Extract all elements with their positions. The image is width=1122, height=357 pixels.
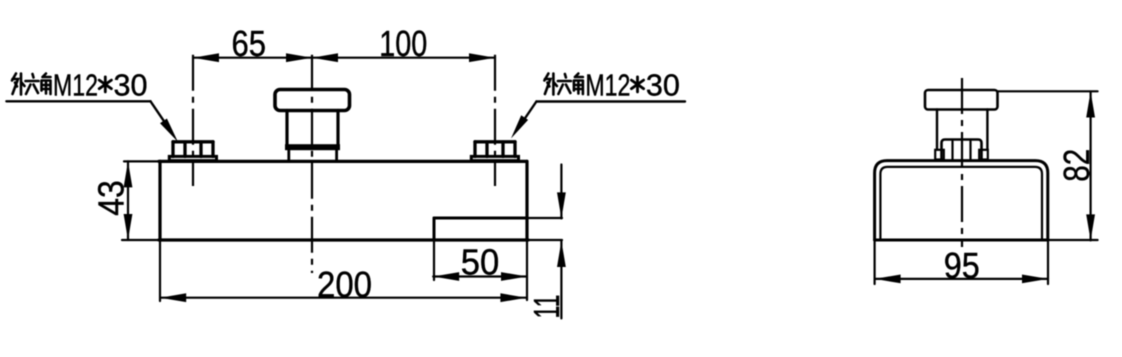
side view: body outer shell bbox=[875, 161, 1048, 240]
dimension 100: line bbox=[312, 57, 495, 59]
front view: knob band bbox=[285, 144, 340, 150]
front view: right bolt flange bbox=[471, 156, 518, 160]
svg-text:200: 200 bbox=[317, 264, 372, 305]
label left: leader diagonal bbox=[151, 101, 173, 133]
dimension 95: left arrow bbox=[875, 275, 901, 284]
label left: leader underline bbox=[6, 100, 150, 102]
svg-text:43: 43 bbox=[91, 180, 132, 216]
front view: knob neck bbox=[287, 111, 338, 145]
svg-text:50: 50 bbox=[461, 242, 500, 283]
dimension 82: top arrow bbox=[1086, 92, 1095, 118]
side view: knob cap bbox=[925, 90, 998, 110]
front view: step edge vertical bbox=[433, 218, 436, 280]
front view: body right edge bbox=[525, 161, 528, 300]
label right: leader underline bbox=[536, 100, 685, 102]
front view: body bottom edge bbox=[122, 239, 562, 241]
side view: knob neck bbox=[937, 110, 987, 150]
svg-text:95: 95 bbox=[944, 245, 980, 286]
dimension 43: bottom arrow bbox=[124, 214, 133, 240]
dimension 200: line bbox=[160, 297, 526, 299]
dimension 65: line bbox=[193, 57, 312, 59]
front view: body top edge bbox=[124, 160, 527, 162]
dimension 65: left arrow bbox=[193, 53, 219, 62]
side view: centerline bbox=[961, 78, 963, 247]
dimension 11: upper line bbox=[560, 165, 562, 219]
svg-text:82: 82 bbox=[1056, 149, 1097, 182]
dimension 82: top extension bbox=[998, 90, 1098, 92]
svg-text:65: 65 bbox=[232, 23, 267, 64]
front view: right bolt head bbox=[475, 142, 515, 157]
dimension 50: left arrow bbox=[433, 272, 459, 281]
label left: leader arrowhead bbox=[160, 119, 178, 143]
svg-text:30: 30 bbox=[114, 68, 148, 103]
svg-text:30: 30 bbox=[646, 68, 680, 103]
label right: leader diagonal bbox=[517, 102, 536, 131]
front view: body left edge bbox=[158, 161, 161, 301]
front view: left bolt flange bbox=[169, 156, 216, 160]
dimension 95: line bbox=[875, 278, 1048, 280]
dimension 82: line bbox=[1089, 92, 1091, 241]
label right: leader arrowhead bbox=[511, 115, 528, 138]
label right: star symbol bbox=[631, 77, 643, 92]
front view: right bolt centerline bbox=[494, 55, 496, 186]
label left: hanzi 外六角 bbox=[12, 74, 51, 95]
svg-text:M12: M12 bbox=[53, 68, 98, 103]
dimension 95: left extension bbox=[873, 240, 875, 284]
dimension 200: right arrow bbox=[500, 293, 526, 302]
dimension 200: left arrow bbox=[160, 293, 186, 302]
front view: knob centerline bbox=[311, 55, 313, 273]
dimension 43: line bbox=[127, 161, 129, 240]
side view: nut right ear bbox=[979, 150, 988, 160]
side view: body bottom edge bbox=[875, 239, 1098, 242]
side view: hex nut bbox=[942, 140, 982, 160]
svg-text:M12: M12 bbox=[585, 68, 630, 103]
dimension 11: upper arrow (down) bbox=[557, 192, 566, 218]
dimension 65: right arrow bbox=[286, 53, 312, 62]
dimension 95: right extension bbox=[1047, 240, 1049, 284]
side view: nut left ear bbox=[935, 150, 944, 160]
dimension 11: lower line bbox=[560, 241, 562, 318]
front view: left bolt head bbox=[173, 142, 213, 157]
dimension 43: top arrow bbox=[124, 161, 133, 187]
front view: step edge horizontal bbox=[434, 217, 562, 220]
dimension 11: lower arrow (up) bbox=[557, 241, 566, 267]
dimension 100: right arrow bbox=[469, 53, 495, 62]
front view: magnet knob cap bbox=[275, 90, 350, 111]
dimension 50: line bbox=[433, 275, 527, 277]
side view: body inner shell bbox=[880, 167, 1042, 239]
svg-text:100: 100 bbox=[379, 23, 427, 64]
side view: hex nut facets bbox=[953, 141, 971, 159]
front view: left bolt centerline bbox=[192, 55, 194, 186]
front view: knob skirt bbox=[289, 150, 337, 161]
label left: star symbol bbox=[99, 77, 111, 92]
dimension 95: right arrow bbox=[1022, 275, 1048, 284]
label right: hanzi 外六角 bbox=[544, 74, 583, 95]
dimension 82: bottom arrow bbox=[1086, 214, 1095, 240]
dimension 100: left arrow bbox=[312, 53, 338, 62]
dimension 50: right arrow bbox=[501, 272, 527, 281]
svg-text:11: 11 bbox=[526, 295, 567, 319]
